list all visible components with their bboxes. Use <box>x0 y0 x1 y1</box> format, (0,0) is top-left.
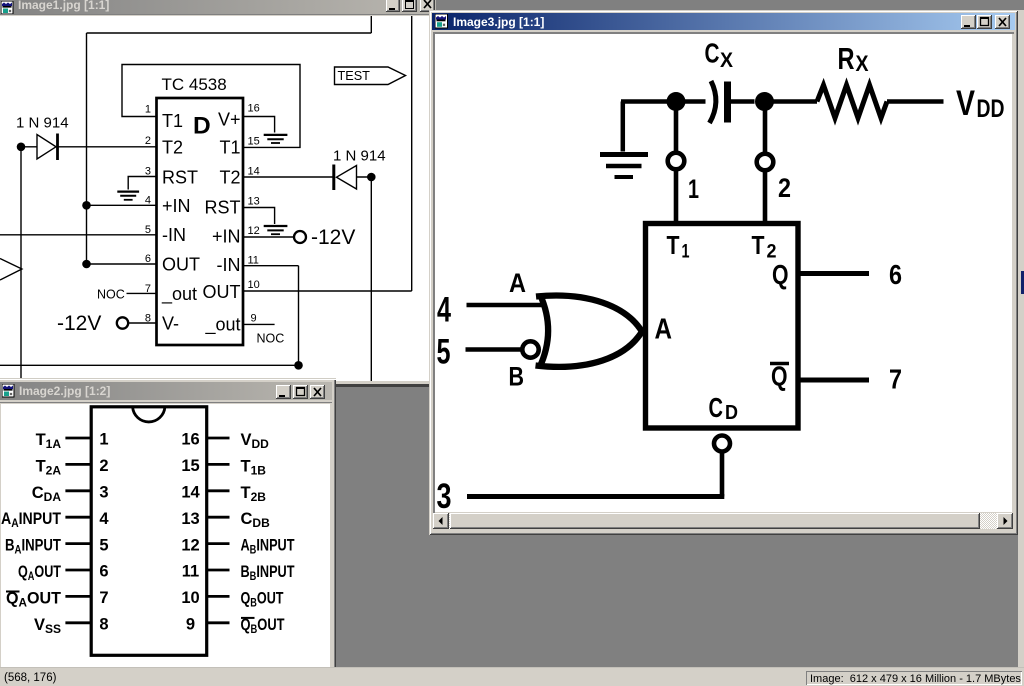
ground symbol <box>600 155 648 178</box>
terminal 1 (open circle) <box>668 153 685 170</box>
resistor RX <box>817 85 887 118</box>
minimize button <box>276 385 291 399</box>
diode D1 1N914 <box>37 134 58 161</box>
wire T2 terminal to block <box>763 171 768 224</box>
node B junction (pin6) <box>82 260 91 269</box>
pin 10 stub <box>207 595 230 598</box>
diode D2 1N914 <box>334 165 357 191</box>
svg-text:3: 3 <box>437 477 452 512</box>
svg-text:RST: RST <box>162 167 198 187</box>
svg-text:2: 2 <box>99 457 108 475</box>
pin 5 stub <box>65 542 91 545</box>
maximize button <box>977 15 992 29</box>
wire node 2 to resistor <box>765 99 818 104</box>
window icon Image3 <box>435 14 448 29</box>
pin 6 stub <box>65 569 91 572</box>
node D junction (right diode cathode) <box>367 173 376 182</box>
capacitor CX <box>710 81 728 123</box>
svg-text:R: R <box>838 41 855 76</box>
svg-text:T1: T1 <box>219 138 240 158</box>
svg-text:15: 15 <box>248 136 260 148</box>
svg-text:4: 4 <box>437 291 451 330</box>
horizontal scrollbar <box>433 513 1013 529</box>
svg-text:3: 3 <box>145 166 151 178</box>
wire pin3 <box>128 177 156 190</box>
svg-text:D: D <box>193 113 211 140</box>
svg-text:14: 14 <box>181 484 200 502</box>
status bar <box>0 667 1024 686</box>
svg-text:B: B <box>509 362 525 392</box>
wire pin7 NOC stub <box>127 292 157 294</box>
wire pin 7 output Qbar <box>799 378 869 383</box>
svg-text:16: 16 <box>248 102 260 114</box>
pin 2 stub <box>65 463 91 466</box>
svg-text:2: 2 <box>145 135 151 147</box>
svg-text:V+: V+ <box>218 110 241 130</box>
overline of QA OUT <box>6 591 20 593</box>
window icon Image2 <box>2 384 15 398</box>
OR gate U2 <box>536 295 643 368</box>
wire input A <box>467 303 546 308</box>
minimize button <box>961 15 976 29</box>
wire VSS rail to cap <box>621 99 706 104</box>
pin 9 stub <box>207 621 230 624</box>
svg-text:12: 12 <box>181 536 199 554</box>
svg-text:6: 6 <box>145 253 151 265</box>
pin 14 stub <box>207 489 230 492</box>
wire pin14 to diode <box>244 176 372 178</box>
ground G1 (pin3) <box>117 192 139 200</box>
svg-text:5: 5 <box>99 536 108 554</box>
monostable block U1 <box>646 224 799 429</box>
terminal -12V (pin12) <box>294 231 306 243</box>
svg-text:NOC: NOC <box>257 332 285 346</box>
svg-text:2: 2 <box>778 173 791 203</box>
ground G2 (pin16) <box>264 135 288 143</box>
svg-text:C: C <box>705 38 720 69</box>
svg-text:+IN: +IN <box>212 226 241 246</box>
svg-text:OUT: OUT <box>203 282 241 302</box>
svg-text:T1A: T1A <box>36 431 62 451</box>
svg-text:X: X <box>856 51 869 76</box>
svg-text:T: T <box>752 230 765 260</box>
svg-text:1: 1 <box>145 104 151 116</box>
svg-text:9: 9 <box>186 616 195 634</box>
node A junction (pin4) <box>82 201 91 210</box>
svg-text:4: 4 <box>145 195 151 207</box>
wire CD bubble drop <box>720 452 725 497</box>
inverter bubble input B <box>522 341 538 357</box>
svg-text:V: V <box>956 84 976 123</box>
svg-text:A: A <box>655 314 673 346</box>
wire pin11 drop to bottom rail <box>298 266 300 366</box>
svg-text:13: 13 <box>181 510 199 528</box>
pin 12 stub <box>207 542 230 545</box>
svg-text:6: 6 <box>889 259 902 290</box>
svg-text:1 N 914: 1 N 914 <box>333 148 386 165</box>
svg-text:5: 5 <box>437 333 451 372</box>
wire cap to node 2 <box>731 99 755 104</box>
terminal 2 (open circle) <box>757 154 774 171</box>
svg-text:BAINPUT: BAINPUT <box>5 537 61 557</box>
wire node 1 to T1 terminal <box>674 102 679 153</box>
IC DIP-16 package outline <box>91 407 207 656</box>
wire input B <box>466 347 523 352</box>
svg-text:A: A <box>509 268 526 298</box>
wire pin6 <box>87 263 157 265</box>
node E junction (bottom rail) <box>294 361 303 370</box>
wire pin8 from -12V terminal <box>129 322 157 324</box>
node 2 junction <box>755 92 774 111</box>
svg-text:-12V: -12V <box>57 312 101 335</box>
svg-text:_out: _out <box>204 314 240 335</box>
svg-text:RST: RST <box>205 198 241 218</box>
svg-text:11: 11 <box>182 563 199 581</box>
wire pin9 NOC stub <box>244 323 275 325</box>
svg-text:-IN: -IN <box>162 225 186 245</box>
svg-text:VDD: VDD <box>241 431 270 451</box>
overline of Qbar <box>770 362 789 366</box>
svg-text:7: 7 <box>889 364 902 395</box>
svg-text:12: 12 <box>248 225 260 237</box>
svg-text:NOC: NOC <box>97 288 125 302</box>
close button <box>995 15 1010 29</box>
package notch <box>133 407 165 422</box>
wire pin10 <box>244 290 412 292</box>
svg-text:14: 14 <box>248 166 260 178</box>
svg-text:9: 9 <box>251 313 257 325</box>
svg-text:AAINPUT: AAINPUT <box>1 510 61 530</box>
svg-text:CDB: CDB <box>241 510 271 530</box>
pin 7 stub <box>65 595 91 598</box>
right edge strip <box>1018 10 1024 667</box>
pin 8 stub <box>65 621 91 624</box>
window icon Image1 <box>1 1 14 15</box>
pin 11 stub <box>207 569 230 572</box>
CD terminal (open circle) <box>714 436 730 452</box>
svg-text:T: T <box>667 230 680 260</box>
svg-text:V-: V- <box>162 314 179 334</box>
maximize button <box>402 0 417 12</box>
wire top loop <box>87 32 372 34</box>
svg-text:-IN: -IN <box>217 255 241 275</box>
svg-text:8: 8 <box>99 616 108 634</box>
wire node 2 to T2 terminal <box>763 102 768 154</box>
svg-text:-12V: -12V <box>311 226 355 249</box>
wire T1 terminal to block <box>674 170 679 224</box>
svg-text:ABINPUT: ABINPUT <box>241 537 295 557</box>
pin 1 stub <box>65 437 91 440</box>
pin 15 stub <box>207 463 230 466</box>
wire diode node drop <box>370 177 372 381</box>
wire left drop and bottom rail <box>0 147 299 381</box>
pin 4 stub <box>65 516 91 519</box>
wire pin11 <box>244 265 299 267</box>
wire top loop riser (clipped) <box>370 16 372 33</box>
svg-text:T2B: T2B <box>241 484 267 504</box>
wire pin1 loop to pin15 (thin rect) <box>122 65 300 148</box>
wire pin12 to -12V terminal <box>244 236 294 238</box>
wire pin16 V+ to ground <box>244 117 275 133</box>
svg-text:VSS: VSS <box>34 616 61 636</box>
close button <box>420 0 435 12</box>
svg-text:10: 10 <box>248 279 260 291</box>
svg-text:1: 1 <box>99 431 108 449</box>
svg-text:1: 1 <box>682 242 690 263</box>
svg-text:15: 15 <box>181 457 199 475</box>
svg-text:TEST: TEST <box>338 69 371 83</box>
svg-text:7: 7 <box>145 283 151 295</box>
svg-text:CDA: CDA <box>32 484 62 504</box>
svg-text:D: D <box>725 402 738 424</box>
svg-text:_out: _out <box>161 284 197 305</box>
svg-text:16: 16 <box>181 431 199 449</box>
svg-text:1 N 914: 1 N 914 <box>16 115 69 132</box>
pin 13 stub <box>207 516 230 519</box>
svg-text:11: 11 <box>248 255 259 267</box>
svg-text:+IN: +IN <box>162 196 191 216</box>
svg-text:10: 10 <box>181 589 199 607</box>
svg-text:BBINPUT: BBINPUT <box>241 563 295 583</box>
terminal -12V (pin8) <box>117 317 128 328</box>
wire pin10 riser <box>411 16 413 291</box>
IC U1 TC4538 outline <box>157 98 244 345</box>
ground lead <box>621 102 626 152</box>
svg-text:T1B: T1B <box>241 457 267 477</box>
flag TEST <box>335 67 406 85</box>
svg-text:4: 4 <box>99 510 109 528</box>
ground G3 (pin13) <box>264 226 288 234</box>
minimize button <box>386 0 400 12</box>
flag fragment (left edge) <box>0 259 22 281</box>
pin 3 stub <box>65 489 91 492</box>
wire pin4 <box>87 204 157 206</box>
node C junction (left diode anode) <box>17 143 26 152</box>
wire pin2 from diode <box>21 146 157 148</box>
overline of QB OUT <box>241 617 255 619</box>
svg-text:13: 13 <box>248 196 260 208</box>
svg-text:3: 3 <box>99 484 108 502</box>
wire pin 6 output Q <box>799 271 869 276</box>
svg-text:X: X <box>720 49 733 72</box>
close button <box>310 385 325 399</box>
wire left riser to +IN/OUT <box>86 33 88 264</box>
wire resistor to VDD <box>887 99 944 104</box>
svg-text:8: 8 <box>145 313 151 325</box>
svg-text:7: 7 <box>99 589 108 607</box>
svg-text:T2: T2 <box>162 137 183 157</box>
svg-text:6: 6 <box>99 563 108 581</box>
maximize button <box>293 385 308 399</box>
svg-text:T2A: T2A <box>36 457 62 477</box>
node 1 junction <box>667 92 686 111</box>
svg-text:TC 4538: TC 4538 <box>162 75 227 94</box>
wire pin5 <box>0 234 157 236</box>
svg-text:C: C <box>709 392 724 423</box>
svg-text:OUT: OUT <box>162 254 200 274</box>
svg-text:T2: T2 <box>219 168 240 188</box>
svg-text:QAOUT: QAOUT <box>18 563 61 583</box>
svg-text:T1: T1 <box>162 111 183 131</box>
svg-text:QBOUT: QBOUT <box>241 589 284 609</box>
svg-text:Q: Q <box>772 259 789 290</box>
svg-text:1: 1 <box>688 174 699 204</box>
svg-text:DD: DD <box>977 95 1005 123</box>
svg-text:5: 5 <box>145 224 151 236</box>
pin 16 stub <box>207 437 230 440</box>
wire pin 3 rail <box>467 494 724 499</box>
wire pin13 to ground <box>244 208 275 225</box>
